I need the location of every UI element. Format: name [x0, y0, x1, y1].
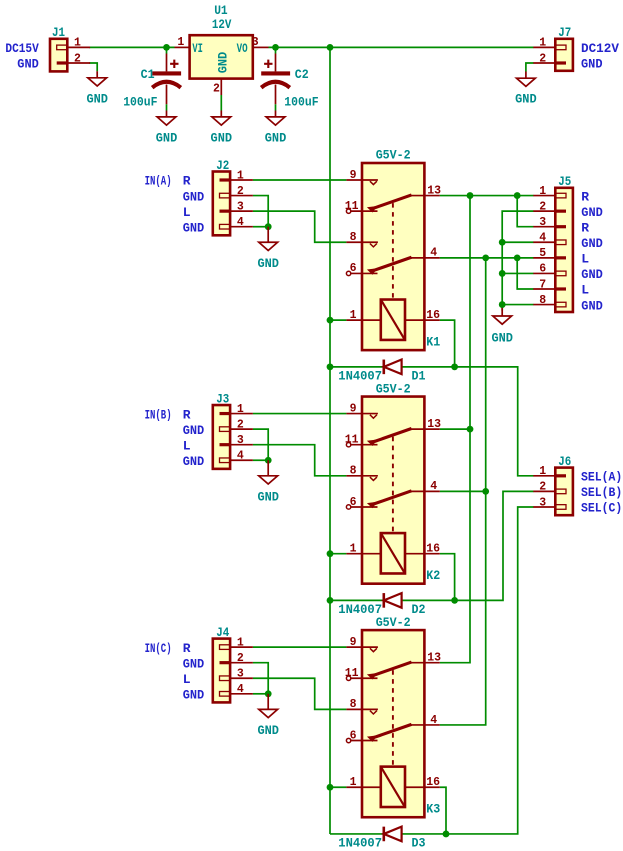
- svg-text:R: R: [581, 220, 589, 235]
- relay K2 G5V-2: [362, 397, 424, 584]
- node J5.8 ground: [499, 301, 506, 308]
- U1 pin 3 VO: [253, 46, 269, 48]
- svg-text:GND: GND: [257, 256, 279, 271]
- svg-text:8: 8: [350, 698, 357, 711]
- K2 pin 16 coil: [405, 553, 440, 555]
- node K2.4 on OUT_L bus: [482, 488, 489, 495]
- node K2.13 on OUT_R bus: [467, 426, 474, 433]
- svg-text:IN(A): IN(A): [145, 174, 172, 189]
- svg-text:6: 6: [350, 729, 357, 742]
- K1 pin 1 coil: [346, 319, 380, 321]
- connector J5 output: [555, 188, 573, 312]
- K3 pin 8: [346, 708, 378, 710]
- K2 actuator dashed line: [392, 437, 394, 533]
- K1 contact arm upper: [373, 195, 412, 208]
- svg-text:L: L: [581, 252, 589, 267]
- svg-text:J7: J7: [558, 25, 571, 40]
- ground of C1: [166, 111, 168, 117]
- svg-text:D2: D2: [412, 602, 426, 617]
- node +12V bus tap: [327, 44, 334, 51]
- J5 pin 3: [533, 226, 555, 228]
- svg-text:2: 2: [539, 481, 546, 494]
- K3 pin 16 coil: [405, 786, 440, 788]
- K2 pin 13: [410, 428, 440, 430]
- svg-text:8: 8: [539, 294, 546, 307]
- wire J3.4 to ground node: [253, 459, 268, 461]
- svg-text:D3: D3: [412, 836, 426, 851]
- wire J5.6 to ground bus: [502, 272, 533, 274]
- wire J3.1 R to K2.9: [253, 413, 347, 415]
- svg-text:GND: GND: [156, 130, 178, 145]
- svg-text:R: R: [183, 174, 191, 189]
- J5 pin 2: [533, 210, 555, 212]
- node K3.1 on +12V bus: [327, 784, 334, 791]
- svg-text:GND: GND: [211, 130, 233, 145]
- svg-text:DC12V: DC12V: [581, 41, 619, 56]
- wire net DC12V top rail: [269, 46, 534, 48]
- K2 pin 6: [346, 505, 350, 509]
- wire K3.16 to D3: [440, 787, 446, 834]
- J3 pin 2: [230, 428, 253, 430]
- voltage regulator U1 12V: [190, 35, 253, 78]
- wire J5.8 to ground bus: [502, 304, 533, 306]
- node K2.1 on +12V bus: [327, 550, 334, 557]
- wire K1.13 to J5.1 net OUT_R: [440, 195, 534, 197]
- wire OUT_R bus to K3.13: [440, 196, 470, 663]
- svg-text:GND: GND: [17, 57, 39, 72]
- K3 pin 11: [346, 676, 350, 680]
- svg-text:R: R: [183, 407, 191, 422]
- diode D3 1N4007: [384, 827, 402, 842]
- wire +12V to K2.1: [330, 553, 346, 555]
- node J3 ground junction: [265, 457, 272, 464]
- wire OUT_L bus to K3.4: [440, 258, 486, 725]
- J1 pin 2: [67, 62, 90, 64]
- wire J3.3 L to K2.8: [253, 445, 347, 476]
- svg-text:GND: GND: [581, 236, 603, 251]
- K3 pin 9: [346, 646, 378, 648]
- capacitor C1 100uF: [166, 54, 168, 72]
- svg-text:4: 4: [539, 232, 546, 245]
- svg-text:1: 1: [350, 776, 357, 789]
- node D2 on +12V bus: [327, 597, 334, 604]
- svg-text:1: 1: [350, 309, 357, 322]
- connector J6 select input: [555, 468, 573, 516]
- connector J1 DC15V input: [50, 39, 67, 72]
- svg-text:3: 3: [237, 668, 244, 681]
- svg-text:5: 5: [539, 247, 546, 260]
- svg-text:SEL(B): SEL(B): [581, 485, 622, 500]
- capacitor C2 100uF: [275, 54, 277, 72]
- connector J3 IN(B) input: [213, 405, 230, 469]
- svg-text:3: 3: [539, 216, 546, 229]
- svg-text:1: 1: [177, 36, 184, 49]
- svg-text:C2: C2: [295, 67, 309, 82]
- K3 coil: [381, 767, 405, 807]
- wire C2 to ground: [275, 104, 277, 110]
- svg-text:D1: D1: [412, 369, 426, 384]
- svg-text:2: 2: [74, 52, 81, 65]
- node OUT_L bus top: [482, 254, 489, 261]
- connector J2 IN(A) input: [213, 172, 230, 236]
- svg-text:9: 9: [350, 636, 357, 649]
- wire D2 net SEL(B) to J6.2: [330, 491, 534, 600]
- J7 pin 2: [533, 62, 555, 64]
- J3 pin 4: [230, 459, 253, 461]
- svg-text:GND: GND: [257, 489, 279, 504]
- svg-text:L: L: [581, 283, 589, 298]
- svg-text:13: 13: [427, 651, 441, 664]
- svg-text:GND: GND: [86, 91, 108, 106]
- svg-text:GND: GND: [183, 688, 205, 703]
- node C1 on +15V rail: [163, 44, 170, 51]
- K1 pin 4: [410, 257, 440, 259]
- wire J2.3 L to K1.8: [253, 211, 347, 242]
- wire J2.1 R to K1.9: [253, 179, 347, 181]
- J4 pin 4: [230, 693, 253, 695]
- diode D2 1N4007: [384, 593, 402, 608]
- svg-text:GND: GND: [183, 220, 205, 235]
- wire +12V to K1.1: [330, 319, 346, 321]
- svg-text:K3: K3: [426, 802, 440, 817]
- K1 pin 8: [346, 241, 378, 243]
- K1 pin 6: [346, 271, 350, 275]
- K2 coil: [381, 533, 405, 573]
- wire net DC15V: [89, 46, 174, 48]
- svg-text:J5: J5: [558, 174, 571, 189]
- svg-text:9: 9: [350, 402, 357, 415]
- J6 pin 2: [533, 490, 555, 492]
- K1 coil: [381, 300, 405, 340]
- wire K2.13 to OUT_R bus: [440, 428, 470, 430]
- wire K2.16 to D2: [440, 554, 455, 601]
- svg-text:11: 11: [345, 433, 359, 446]
- svg-text:GND: GND: [491, 331, 513, 346]
- K3 pin 6: [346, 738, 350, 742]
- ground of C2: [275, 111, 277, 117]
- K2 pin 11: [346, 442, 350, 446]
- K3 pin 1 coil: [346, 786, 380, 788]
- svg-text:13: 13: [427, 418, 441, 431]
- J4 pin 3: [230, 677, 253, 679]
- svg-text:GND: GND: [183, 423, 205, 438]
- ground at J5: [501, 305, 503, 316]
- node J5.4 ground: [499, 239, 506, 246]
- svg-text:SEL(A): SEL(A): [581, 470, 622, 485]
- svg-text:GND: GND: [183, 454, 205, 469]
- U1 pin 2 GND: [220, 79, 222, 95]
- wire J5.3 branch OUT_R: [517, 196, 533, 227]
- svg-text:12V: 12V: [212, 17, 232, 32]
- connector J4 IN(C) input: [213, 639, 230, 703]
- node J5.3 branch: [514, 192, 521, 199]
- svg-text:1N4007: 1N4007: [338, 836, 382, 851]
- J5 pin 5: [533, 257, 555, 259]
- node K1.16 at D1: [451, 363, 458, 370]
- ground of U1: [220, 111, 222, 117]
- K1 pin 13: [410, 195, 440, 197]
- svg-text:1: 1: [539, 185, 546, 198]
- svg-text:3: 3: [252, 36, 259, 49]
- svg-text:11: 11: [345, 667, 359, 680]
- ground at J4: [267, 694, 269, 710]
- svg-text:GND: GND: [581, 267, 603, 282]
- svg-text:R: R: [581, 189, 589, 204]
- svg-text:4: 4: [237, 450, 244, 463]
- J5 pin 4: [533, 241, 555, 243]
- ground at J7: [525, 72, 527, 79]
- J5 pin 6: [533, 272, 555, 274]
- svg-text:GND: GND: [581, 298, 603, 313]
- J2 pin 4: [230, 226, 253, 228]
- svg-text:1: 1: [539, 37, 546, 50]
- connector J7 DC12V output: [555, 39, 573, 71]
- wire J5 ground bus: [502, 211, 533, 310]
- svg-text:4: 4: [237, 216, 244, 229]
- node J2 ground junction: [265, 223, 272, 230]
- svg-text:2: 2: [237, 185, 244, 198]
- svg-text:9: 9: [350, 169, 357, 182]
- svg-text:3: 3: [237, 434, 244, 447]
- J5 pin 8: [533, 304, 555, 306]
- svg-text:3: 3: [237, 200, 244, 213]
- svg-text:1: 1: [237, 169, 244, 182]
- svg-text:IN(B): IN(B): [145, 407, 172, 422]
- svg-text:6: 6: [539, 263, 546, 276]
- J2 pin 1: [230, 179, 253, 181]
- wire +12V to K3.1: [330, 786, 346, 788]
- node K1.1 on +12V bus: [327, 317, 334, 324]
- J6 pin 1: [533, 475, 555, 477]
- J3 pin 3: [230, 444, 253, 446]
- svg-text:J1: J1: [52, 25, 65, 40]
- node D1 on +12V bus: [327, 363, 334, 370]
- wire J3.2 to ground node: [253, 429, 268, 460]
- svg-text:100uF: 100uF: [123, 94, 157, 109]
- K1 pin 11: [346, 209, 350, 213]
- wire K2.4 to OUT_L bus: [440, 490, 486, 492]
- U1 pin 1 VI: [175, 46, 190, 48]
- J2 pin 3: [230, 210, 253, 212]
- K2 contact arm lower: [373, 491, 412, 504]
- J4 pin 1: [230, 646, 253, 648]
- wire J4.3 L to K3.8: [253, 678, 347, 709]
- svg-text:2: 2: [237, 418, 244, 431]
- svg-text:3: 3: [539, 496, 546, 509]
- svg-text:J4: J4: [216, 625, 229, 640]
- svg-text:J2: J2: [216, 158, 229, 173]
- ground at J3: [267, 460, 269, 476]
- svg-text:GND: GND: [215, 52, 230, 74]
- svg-text:4: 4: [430, 714, 437, 727]
- svg-text:J3: J3: [216, 391, 229, 406]
- node OUT_R bus top: [467, 192, 474, 199]
- J5 pin 1: [533, 195, 555, 197]
- wire +12V vertical bus: [329, 47, 331, 834]
- K3 actuator dashed line: [392, 670, 394, 766]
- svg-text:1N4007: 1N4007: [338, 602, 382, 617]
- wire J2.4 to ground node: [253, 226, 268, 228]
- svg-text:IN(C): IN(C): [145, 641, 172, 656]
- K3 contact arm upper: [373, 662, 412, 675]
- svg-text:1N4007: 1N4007: [338, 369, 382, 384]
- svg-text:GND: GND: [581, 205, 603, 220]
- svg-text:G5V-2: G5V-2: [376, 148, 411, 163]
- K2 pin 4: [410, 490, 440, 492]
- svg-text:1: 1: [539, 465, 546, 478]
- svg-text:4: 4: [430, 247, 437, 260]
- J5 pin 7: [533, 288, 555, 290]
- K3 contact arm lower: [373, 724, 412, 737]
- svg-text:13: 13: [427, 184, 441, 197]
- wire U1 pin2 to ground: [220, 95, 222, 111]
- K2 pin 8: [346, 475, 378, 477]
- J2 pin 2: [230, 195, 253, 197]
- svg-text:SEL(C): SEL(C): [581, 501, 622, 516]
- K2 pin 9: [346, 413, 378, 415]
- J4 pin 2: [230, 662, 253, 664]
- diode D1 1N4007: [384, 360, 402, 375]
- svg-text:1: 1: [237, 403, 244, 416]
- node J5.6 ground: [499, 270, 506, 277]
- svg-text:2: 2: [539, 52, 546, 65]
- J1 pin 1: [67, 46, 90, 48]
- svg-text:K1: K1: [426, 335, 440, 350]
- node C2 on +12V rail: [272, 44, 279, 51]
- J6 pin 3: [533, 506, 555, 508]
- svg-text:1: 1: [237, 636, 244, 649]
- relay K3 G5V-2: [362, 630, 424, 817]
- svg-text:8: 8: [350, 465, 357, 478]
- svg-text:R: R: [183, 641, 191, 656]
- svg-text:GND: GND: [265, 130, 287, 145]
- J7 pin 1: [533, 46, 555, 48]
- svg-text:L: L: [183, 205, 191, 220]
- svg-text:16: 16: [426, 542, 440, 555]
- ground at J1: [96, 71, 98, 78]
- svg-text:K2: K2: [426, 568, 440, 583]
- svg-text:6: 6: [350, 262, 357, 275]
- K1 pin 16 coil: [405, 319, 440, 321]
- K2 contact arm upper: [373, 429, 412, 442]
- wire J4.4 to ground node: [253, 693, 268, 695]
- svg-text:GND: GND: [183, 656, 205, 671]
- svg-text:4: 4: [430, 480, 437, 493]
- svg-text:GND: GND: [581, 57, 603, 72]
- svg-text:DC15V: DC15V: [5, 41, 39, 56]
- svg-text:VI: VI: [192, 41, 203, 56]
- wire J2.2 to ground node: [253, 196, 268, 227]
- K1 contact arm lower: [373, 257, 412, 270]
- wire J4.1 R to K3.9: [253, 646, 347, 648]
- svg-text:GND: GND: [515, 92, 537, 107]
- wire C2 top: [275, 47, 277, 53]
- K3 pin 13: [410, 662, 440, 664]
- svg-text:4: 4: [237, 683, 244, 696]
- svg-text:L: L: [183, 672, 191, 687]
- K1 actuator dashed line: [392, 203, 394, 299]
- svg-text:100uF: 100uF: [284, 94, 318, 109]
- svg-text:2: 2: [213, 82, 220, 95]
- wire D1 net SEL(A) to J6.1: [330, 367, 534, 476]
- svg-text:8: 8: [350, 231, 357, 244]
- K2 pin 1 coil: [346, 553, 380, 555]
- node J4 ground junction: [265, 690, 272, 697]
- svg-text:GND: GND: [183, 189, 205, 204]
- svg-text:1: 1: [74, 37, 81, 50]
- svg-text:1: 1: [350, 542, 357, 555]
- J3 pin 1: [230, 413, 253, 415]
- wire J7 pin2 to ground: [526, 63, 534, 72]
- svg-text:L: L: [183, 438, 191, 453]
- svg-text:C1: C1: [141, 67, 155, 82]
- svg-text:11: 11: [345, 200, 359, 213]
- wire J1 pin2 to ground: [89, 63, 97, 71]
- node K2.16 at D2: [451, 597, 458, 604]
- wire K1.4 to J5.5 net OUT_L: [440, 257, 534, 259]
- svg-text:J6: J6: [558, 454, 571, 469]
- relay K1 G5V-2: [362, 163, 424, 350]
- node K3.16 at D3: [443, 831, 450, 838]
- wire K1.16 to D1: [440, 320, 455, 367]
- svg-text:7: 7: [539, 278, 546, 291]
- svg-text:16: 16: [426, 309, 440, 322]
- wire J4.2 to ground node: [253, 663, 268, 694]
- wire D3 net SEL(C) to J6.3: [330, 507, 534, 834]
- svg-text:VO: VO: [237, 41, 248, 56]
- svg-text:2: 2: [237, 652, 244, 665]
- svg-text:6: 6: [350, 496, 357, 509]
- svg-text:16: 16: [426, 776, 440, 789]
- wire J5.7 branch OUT_L: [517, 258, 533, 289]
- node J5.7 branch: [514, 254, 521, 261]
- wire J5.4 to ground bus: [502, 241, 533, 243]
- ground at J2: [267, 227, 269, 243]
- K3 pin 4: [410, 724, 440, 726]
- wire C1 to ground: [166, 104, 168, 110]
- wire C1 top: [166, 47, 168, 53]
- svg-text:2: 2: [539, 200, 546, 213]
- K1 pin 9: [346, 179, 378, 181]
- svg-text:GND: GND: [257, 723, 279, 738]
